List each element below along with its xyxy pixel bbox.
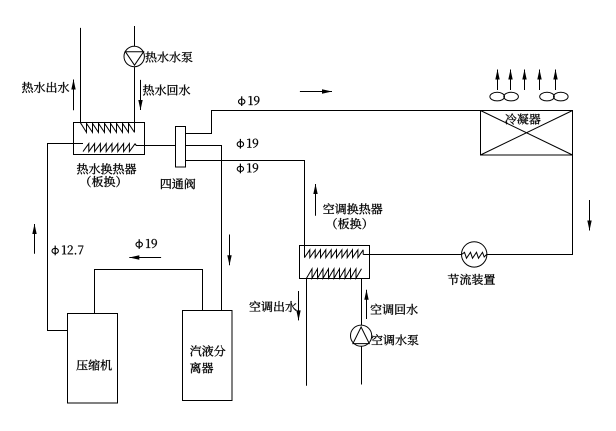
pump P2 AC water pump [351,325,372,346]
flow arrow flow up AC inlet [313,184,317,216]
separator 汽液分离器 [183,311,233,401]
flow arrow hot-water return down [138,80,142,110]
compressor 压缩机 [68,314,118,404]
label 空调水泵 [371,334,418,345]
label 汽液分 [190,345,225,356]
wire pump P1 outlet / hot-water return pipe [134,67,136,122]
wire suction HX1 to compressor [48,144,74,331]
label 离器 [190,362,213,373]
wire AC return pipe lower [361,346,363,384]
flow arrow hot-water outlet up [71,80,75,111]
label （板换）hx2 [333,218,365,229]
heat exchanger HX2 AC plate exchanger [300,246,370,279]
four-way valve [176,127,186,168]
label φ19 low [237,163,258,173]
label 热水水泵 [146,52,193,63]
flow arrow air flow up 2 [508,70,512,91]
wire condenser to throttle device [487,155,573,255]
label φ19 mid [237,139,258,149]
flow arrow flow left discharge [129,255,161,259]
label 空调换热器 [323,203,382,214]
wire discharge compressor to separator [95,270,203,314]
flow arrow flow up suction [32,224,36,254]
flow arrow flow right to condenser [300,89,332,93]
wire AC return pipe upper [361,279,363,326]
fan symbol left [490,92,519,101]
throttle device 节流装置 [462,242,487,267]
wire hot-water outlet pipe [80,28,82,123]
flow arrow AC outlet down [296,291,300,320]
flow arrow AC return up [364,290,368,319]
pump P1 hot water pump [124,46,144,66]
label 空调出水 [249,301,296,312]
heat exchanger HX1 hot-water plate exchanger [74,123,145,155]
label 节流装置 [448,274,495,285]
wire AC outlet pipe [306,279,308,386]
label 空调回水 [371,304,418,315]
flow arrow flow down right side [587,200,591,231]
label φ19 top [239,96,260,106]
flow arrow air flow up 5 [553,70,557,91]
label 热水换热器 [77,163,136,174]
label （板换）hx1 [87,176,119,187]
label 压缩机 [77,360,112,371]
label 四通阀 [161,178,195,189]
label 冷凝器 [505,114,540,125]
label φ19 discharge [136,239,157,249]
label φ12.7 [52,245,83,255]
condenser 冷凝器 [481,111,573,156]
wire valve to condenser [186,111,481,134]
wire valve to separator [186,146,222,311]
label 热水出水 [22,82,69,93]
label 热水回水 [143,85,190,96]
fan symbol right [540,92,568,101]
flow arrow flow down into separator [227,235,231,266]
flow arrow air flow up 3 [522,70,526,91]
flow arrow air flow up 1 [495,70,499,91]
wire valve to AC heat exchanger [186,161,305,246]
wire pump P1 inlet [134,26,136,47]
wire HX1 to four-way valve [145,145,176,147]
flow arrow air flow up 4 [537,70,541,91]
wire throttle to AC heat exchanger [370,254,462,256]
